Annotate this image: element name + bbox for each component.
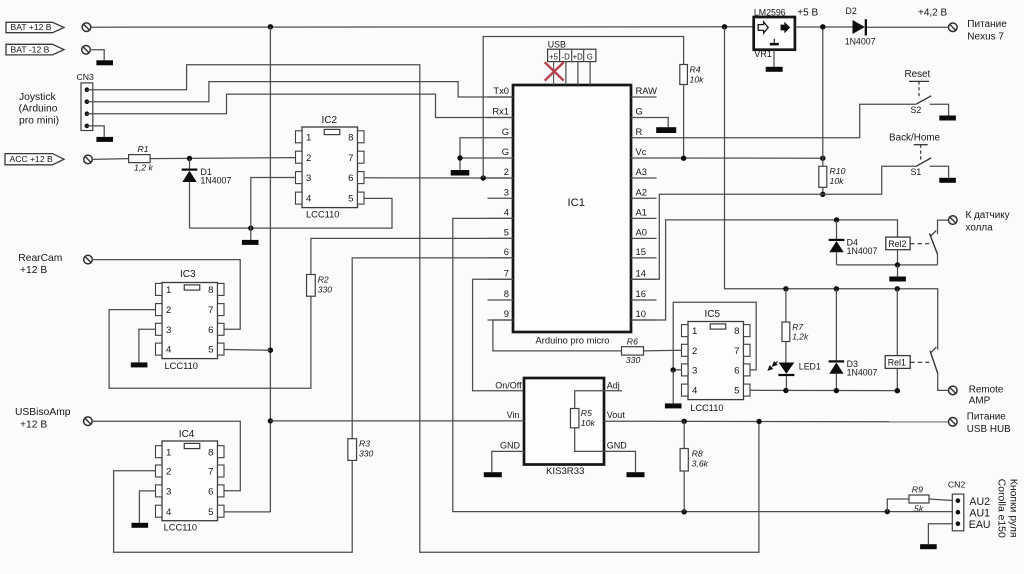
svg-text:CN2: CN2: [948, 480, 966, 490]
svg-text:15: 15: [636, 246, 646, 257]
wire Adj stub: [604, 390, 622, 392]
wire IC1 pin6 to R3: [352, 258, 513, 439]
IC1 left pin 5: [488, 237, 514, 239]
wire CN3 pin4 to ground: [87, 126, 104, 137]
wire R2 to IC3 pin2: [109, 296, 311, 388]
ground CN3 pin4: [96, 137, 113, 142]
IC1 left pin 7: [488, 278, 514, 280]
svg-text:+12 В: +12 В: [20, 265, 47, 276]
wire BAT-12 to ground: [90, 50, 104, 61]
svg-text:G: G: [502, 126, 509, 137]
opto-IC IC4 LCC110: [162, 441, 218, 521]
svg-text:Adj: Adj: [607, 380, 620, 390]
IC1 right pin G: [631, 117, 657, 119]
svg-text:Reset: Reset: [905, 69, 931, 80]
svg-text:R1: R1: [138, 144, 149, 154]
wire USB G to IC1: [589, 62, 591, 85]
svg-text:8: 8: [734, 326, 739, 337]
wire D2 to Nexus terminal: [867, 26, 948, 28]
resistor R4: [680, 65, 688, 85]
svg-text:LCC110: LCC110: [165, 361, 198, 371]
terminal BAT -12: [82, 46, 91, 55]
wire USB +D to IC1: [577, 62, 579, 85]
IC1 right pin RAW: [631, 96, 657, 98]
S2 actuator: [909, 80, 929, 82]
svg-text:-D: -D: [561, 52, 570, 61]
wire CN3 pin1 to 3.3V Vout net: [87, 65, 759, 552]
wire IC1 pin10 to relay Rel2 coil: [631, 220, 898, 320]
switch S1 fixed contact: [930, 166, 949, 178]
node R9 junction: [885, 509, 890, 514]
switch S2 fixed contact: [930, 104, 949, 115]
svg-text:1: 1: [166, 285, 171, 296]
diode D3 1N4007: [835, 289, 837, 361]
IC1 left pin 2: [488, 177, 514, 179]
LM2596 bottom pin to ground: [773, 50, 775, 67]
ground BAT-12: [96, 60, 113, 65]
flag BAT +12 В: [6, 22, 64, 32]
svg-text:5: 5: [208, 345, 213, 356]
node Rel2 ground: [895, 262, 900, 267]
svg-text:3,6k: 3,6k: [692, 459, 709, 469]
svg-text:Кнопки руля: Кнопки руля: [1008, 479, 1019, 538]
IC1 right pin A0: [631, 237, 657, 239]
wire R9 to CN2 AU2: [929, 499, 952, 501]
terminal RearCam: [84, 255, 93, 264]
svg-text:8: 8: [504, 288, 509, 299]
wire IC3 pin5 to +12 rail: [225, 349, 271, 352]
svg-text:5k: 5k: [914, 503, 924, 513]
wire Vout to USB HUB terminal: [604, 420, 948, 423]
svg-text:7: 7: [734, 346, 739, 357]
wire IC5 pin3/pin6 ground loop: [673, 302, 756, 370]
wire IC3 pin3 to ground: [139, 329, 156, 362]
svg-text:10k: 10k: [830, 176, 845, 186]
svg-text:Vc: Vc: [636, 146, 647, 157]
node BAT+12 / rail to IC3,IC4,Vin: [268, 24, 273, 29]
svg-text:1N4007: 1N4007: [847, 246, 878, 256]
svg-text:10k: 10k: [690, 74, 705, 84]
svg-text:Corolla e150: Corolla e150: [996, 479, 1007, 538]
wire R6 to IC5 pin2: [644, 349, 682, 352]
node Rel1 bottom: [895, 388, 900, 393]
svg-text:6: 6: [348, 173, 353, 184]
wire CN3 pin2 to IC1 Tx0: [87, 82, 513, 102]
svg-text:+12 В: +12 В: [20, 419, 47, 430]
svg-text:10: 10: [636, 308, 646, 319]
svg-text:LED1: LED1: [799, 362, 821, 372]
svg-text:Arduino pro micro: Arduino pro micro: [536, 334, 610, 345]
svg-text:холла: холла: [966, 222, 994, 233]
IC1 left pin G: [488, 157, 514, 159]
wire D1 ground net: [190, 198, 393, 228]
svg-text:USB: USB: [548, 40, 566, 50]
svg-text:Nexus 7: Nexus 7: [967, 31, 1004, 42]
node R1 / D1: [187, 156, 192, 161]
svg-text:1: 1: [306, 132, 311, 143]
svg-text:IC2: IC2: [322, 115, 338, 126]
ground LM2596: [766, 67, 783, 72]
IC1 right pin A2: [631, 197, 657, 199]
wire IC1 pin4 to CN2 AU1: [453, 218, 953, 511]
svg-text:2: 2: [166, 467, 171, 478]
wire IC1 pin5 to R2: [311, 238, 513, 274]
svg-text:A2: A2: [636, 186, 647, 197]
wire BAT+12 rail: [91, 26, 754, 28]
resistor R10: [822, 158, 824, 166]
Rel2 contact arm: [930, 233, 938, 254]
wire RearCam to IC3 pin6: [92, 260, 240, 330]
node ground net D1/IC2: [248, 225, 253, 230]
svg-text:Rel1: Rel1: [888, 357, 906, 367]
Rel2 contact tick: [930, 231, 936, 237]
IC1 right pin A3: [631, 177, 657, 179]
svg-text:7: 7: [208, 467, 213, 478]
ground IC4 pin3: [132, 523, 149, 528]
svg-text:5: 5: [504, 227, 509, 238]
svg-text:ACC +12 В: ACC +12 В: [10, 154, 53, 164]
svg-text:Tx0: Tx0: [493, 85, 509, 96]
svg-text:4: 4: [306, 194, 312, 205]
svg-text:9: 9: [504, 308, 509, 319]
node IC3 pin5 tap: [268, 348, 273, 353]
svg-text:R4: R4: [690, 64, 701, 74]
diode D2 1N4007: [853, 20, 865, 34]
ground IC1 right G: [656, 127, 676, 133]
wire IC1 pin9 to R6: [493, 320, 622, 351]
IC1 left pin 9: [488, 319, 514, 321]
ground IC1 left G: [451, 170, 470, 176]
svg-text:Питание: Питание: [967, 19, 1007, 30]
svg-text:G: G: [502, 146, 509, 157]
ground D1 / IC2 net: [250, 228, 252, 240]
ground KIS3R33 left: [484, 472, 502, 477]
svg-text:8: 8: [208, 447, 213, 458]
LED1 arrows: [768, 361, 777, 370]
Rel1 contact upper tick: [931, 347, 937, 353]
wire IC4 pin5 to +12 rail: [224, 511, 271, 513]
svg-text:Remote: Remote: [969, 384, 1004, 395]
svg-text:LM2596: LM2596: [754, 7, 786, 17]
svg-text:1: 1: [692, 326, 697, 337]
wire IC1 G(right) to ground: [657, 118, 669, 128]
svg-text:R6: R6: [627, 336, 638, 346]
IC1 right pin 14: [631, 278, 657, 280]
svg-text:3: 3: [166, 487, 171, 498]
svg-text:IC1: IC1: [568, 197, 585, 209]
wire GND left: [492, 451, 524, 472]
LED LED1: [779, 363, 795, 374]
svg-text:4: 4: [504, 207, 509, 218]
terminal USBisoAmp: [84, 417, 93, 426]
svg-text:G: G: [587, 52, 593, 61]
svg-text:LCC110: LCC110: [690, 403, 723, 413]
svg-text:RAW: RAW: [636, 85, 658, 96]
svg-text:Joystick: Joystick: [19, 92, 56, 103]
svg-text:R7: R7: [792, 322, 803, 332]
svg-text:CN3: CN3: [77, 72, 95, 82]
LM2596 internal ground: [773, 39, 775, 43]
ground Rel2/D4: [897, 265, 899, 277]
IC1 left pin 8: [488, 299, 514, 301]
svg-text:R: R: [636, 126, 643, 137]
svg-text:4: 4: [692, 386, 698, 397]
svg-text:2: 2: [504, 166, 509, 177]
svg-text:A3: A3: [636, 166, 647, 177]
svg-text:(Arduino: (Arduino: [19, 104, 58, 115]
Rel2 contact lower: [937, 254, 939, 265]
svg-text:330: 330: [359, 449, 374, 459]
terminal Питание Nexus 7: [949, 23, 958, 32]
svg-text:5: 5: [734, 386, 739, 397]
svg-text:Питание: Питание: [967, 412, 1006, 423]
svg-text:7: 7: [348, 153, 353, 164]
svg-text:AMP: AMP: [969, 395, 991, 406]
svg-text:Rel2: Rel2: [888, 239, 906, 249]
svg-text:3: 3: [504, 186, 509, 197]
IC1 right pin 10: [631, 319, 657, 321]
IC1 left pin G: [488, 137, 514, 139]
wire LM2596 out to D2: [795, 26, 853, 28]
wire relay bottom rail to IC5 pin5: [750, 389, 897, 391]
IC1 left pin 6: [488, 257, 514, 259]
svg-text:+5: +5: [549, 52, 559, 61]
svg-text:+D: +D: [573, 52, 584, 61]
resistor R7: [785, 289, 787, 322]
regulator module VR1 LM2596 body: [754, 17, 795, 50]
svg-text:2: 2: [306, 153, 311, 164]
svg-text:LCC110: LCC110: [164, 523, 197, 533]
node rail D3: [834, 286, 839, 291]
svg-text:4: 4: [166, 507, 172, 518]
resistor R6: [622, 347, 644, 355]
svg-text:R8: R8: [692, 449, 703, 459]
resistor R8: [683, 421, 685, 448]
svg-text:Back/Home: Back/Home: [889, 132, 941, 143]
svg-text:Rx1: Rx1: [492, 106, 509, 117]
svg-text:330: 330: [318, 284, 333, 294]
svg-text:R2: R2: [318, 274, 329, 284]
svg-text:6: 6: [208, 487, 213, 498]
wire R4 net riser: [483, 37, 683, 179]
resistor R9: [887, 499, 909, 512]
IC1 right pin Vc: [631, 157, 657, 159]
svg-text:14: 14: [636, 268, 646, 279]
svg-text:BAT +12 В: BAT +12 В: [11, 22, 52, 32]
terminal Питание USB HUB: [949, 418, 958, 427]
IC1 left pin Rx1: [488, 117, 514, 119]
svg-text:USB HUB: USB HUB: [967, 424, 1011, 435]
node left G pins: [457, 155, 462, 160]
svg-text:BAT -12 В: BAT -12 В: [11, 44, 50, 54]
terminal BAT +12: [82, 23, 91, 32]
resistor R2: [307, 275, 316, 297]
relay Rel1 coil box: [896, 289, 898, 356]
svg-text:G: G: [636, 106, 643, 117]
node +12 to relay rail: [722, 24, 727, 29]
svg-text:AU1: AU1: [969, 508, 990, 520]
IC U IC1 Arduino pro micro body: [513, 85, 631, 332]
svg-text:S1: S1: [911, 167, 922, 177]
wire USB +5 (cut): [553, 62, 555, 85]
opto-IC IC2 LCC110: [302, 127, 358, 208]
wire Rel2 coil bottom net: [897, 250, 899, 265]
label Кнопки руля Corolla e150 (rotated): [996, 479, 1019, 538]
diode D4 1N4007: [836, 220, 838, 239]
dashed link Rel1: [911, 361, 930, 363]
svg-text:6: 6: [504, 246, 509, 257]
svg-text:AU2: AU2: [969, 496, 990, 508]
svg-text:GND: GND: [500, 441, 521, 451]
svg-text:Vin: Vin: [507, 410, 520, 420]
node Vout R8: [682, 419, 687, 424]
wire +5 riser from D2 node: [822, 27, 824, 158]
svg-text:R9: R9: [912, 485, 923, 495]
wire CN2 EAU to ground: [928, 524, 952, 545]
opto-IC IC3 LCC110: [162, 283, 218, 359]
ground IC5 pin3: [672, 370, 674, 404]
resistor R3: [348, 439, 357, 461]
resistor R5 (Adj network): [575, 391, 604, 409]
svg-text:3: 3: [692, 366, 697, 377]
wire +12 relay rail: [725, 27, 938, 350]
wire R3 to IC4 pin2: [114, 460, 353, 552]
red X cut mark on USB +5: [545, 62, 564, 80]
svg-text:5: 5: [208, 507, 213, 518]
svg-text:7: 7: [208, 305, 213, 316]
svg-text:D2: D2: [846, 6, 857, 16]
svg-text:4: 4: [166, 345, 172, 356]
svg-text:2: 2: [166, 305, 171, 316]
svg-text:1: 1: [166, 447, 171, 458]
wire IC2 pin3 to ground net: [251, 178, 296, 229]
svg-text:5: 5: [348, 194, 353, 205]
svg-text:330: 330: [626, 355, 641, 365]
terminal ACC +12: [84, 155, 93, 164]
wire IC1 Vc to +5: [657, 157, 823, 159]
svg-text:6: 6: [734, 366, 739, 377]
svg-text:R10: R10: [830, 166, 846, 176]
svg-text:S2: S2: [911, 105, 922, 115]
svg-text:3: 3: [306, 173, 311, 184]
wire IC1 pin7 to On/Off: [473, 279, 524, 390]
switch S1 arm: [916, 158, 931, 166]
opto-IC IC5 LCC110: [688, 322, 744, 400]
wire IC1 pin14 to R10 and S1: [631, 166, 916, 279]
svg-text:1,2 k: 1,2 k: [134, 163, 153, 173]
wire R4 to Vc: [683, 85, 685, 159]
node LED1 bottom: [783, 388, 788, 393]
node Vin tap: [268, 418, 273, 423]
svg-text:1N4007: 1N4007: [847, 367, 878, 377]
node D4 coil net: [834, 217, 839, 222]
svg-text:USBisoAmp: USBisoAmp: [15, 407, 71, 418]
flag BAT -12 В: [6, 44, 64, 55]
node rail R7: [783, 286, 788, 291]
resistor R1: [129, 155, 151, 163]
IC1 right pin R: [631, 137, 657, 139]
ground S2: [939, 116, 956, 121]
svg-text:2: 2: [692, 346, 697, 357]
svg-text:16: 16: [636, 288, 646, 299]
svg-text:KIS3R33: KIS3R33: [546, 466, 584, 477]
IC1 right pin 15: [631, 257, 657, 259]
wire IC4 pin3 to ground: [139, 491, 155, 523]
wire IC1 left G pins to ground: [460, 138, 488, 170]
ground CN2 EAU: [920, 544, 937, 549]
wire ACC to R1: [92, 158, 128, 161]
node rail Rel1: [895, 286, 900, 291]
wire IC2 pin6 to IC1 pin 2: [364, 177, 513, 179]
wire GND right: [604, 451, 636, 472]
relay Rel2 coil box: [886, 237, 910, 250]
svg-text:7: 7: [504, 268, 509, 279]
node IC5 pin3 ground: [671, 367, 676, 372]
svg-text:1N4007: 1N4007: [845, 37, 876, 47]
diode D1 1N4007: [189, 159, 191, 170]
svg-text:A1: A1: [636, 207, 647, 218]
svg-text:R5: R5: [581, 408, 592, 418]
svg-text:1,2k: 1,2k: [792, 331, 809, 341]
IC1 left pin 4: [488, 217, 514, 219]
svg-text:Vout: Vout: [607, 410, 626, 420]
ground IC3 pin3: [131, 362, 148, 367]
wire R1 to IC2 pin2: [150, 158, 295, 159]
svg-text:GND: GND: [607, 441, 628, 451]
node R8 tap: [682, 509, 687, 514]
svg-text:IC5: IC5: [705, 309, 721, 320]
node Vc / R10 / +5 riser: [820, 156, 825, 161]
S1 actuator: [914, 144, 928, 146]
wire Vin from +12: [270, 420, 524, 422]
flag ACC +12 В: [5, 154, 64, 165]
svg-text:On/Off: On/Off: [495, 380, 522, 390]
svg-text:8: 8: [348, 132, 353, 143]
Rel2 contact upper to terminal: [938, 220, 949, 234]
svg-text:8: 8: [208, 285, 213, 296]
svg-text:VR1: VR1: [754, 49, 772, 59]
terminal Remote AMP: [949, 386, 958, 395]
node R10 / pin14 wire: [820, 192, 825, 197]
IC1 left pin 3: [488, 197, 514, 199]
wire IC1 R to S2 Reset: [657, 104, 917, 138]
svg-text:10k: 10k: [581, 418, 596, 428]
svg-text:К датчику: К датчику: [966, 210, 1010, 221]
wire USB -D to IC1: [565, 62, 567, 85]
svg-text:EAU: EAU: [969, 519, 991, 531]
wire USBisoAmp to IC4 pin6: [92, 421, 240, 491]
node IC1 pin2 / R4 net: [481, 175, 486, 180]
svg-text:A0: A0: [636, 227, 647, 238]
node Vout 3.3V riser: [756, 419, 761, 424]
svg-text:1N4007: 1N4007: [201, 176, 232, 186]
svg-text:IC3: IC3: [180, 269, 196, 280]
svg-text:6: 6: [208, 325, 213, 336]
dashed link Rel2: [910, 243, 929, 245]
svg-text:3: 3: [166, 325, 171, 336]
switch S2 arm: [916, 96, 931, 104]
wire CN3 pin3 to IC1 Rx1: [87, 94, 513, 117]
IC1 right pin 16: [631, 299, 657, 301]
IC1 left pin Tx0: [488, 96, 514, 98]
node D3 bottom: [834, 388, 839, 393]
ground S1: [939, 178, 956, 183]
svg-text:+4,2 В: +4,2 В: [918, 8, 948, 19]
wire +12 rail down to IC3/IC4/Vin: [269, 27, 271, 512]
svg-text:LCC110: LCC110: [306, 210, 339, 220]
LM2596 input arrow: [758, 22, 768, 33]
node Vc / R4: [681, 156, 686, 161]
